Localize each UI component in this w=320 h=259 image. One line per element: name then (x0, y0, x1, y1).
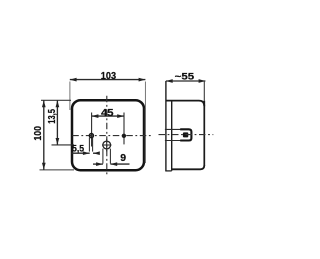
dim 103 arrow right (139, 78, 146, 82)
centre hole (103, 141, 111, 149)
dim 45 extension line left (91, 113, 93, 147)
side view centreline (159, 134, 214, 136)
screw boss thin lines (165, 128, 182, 130)
mounting hole right (122, 134, 126, 138)
side view right edge upper extension (203, 81, 205, 101)
front box right edge thick (144, 108, 146, 163)
dim 13,5 arrow up (56, 100, 60, 107)
dim 9 extension lines (102, 149, 104, 164)
vertical centreline (106, 96, 108, 175)
dim 100 bottom extension line (40, 169, 75, 171)
dim 9 line right + arrow (110, 163, 129, 165)
screw nut (183, 132, 188, 137)
screw boss thick cap (180, 129, 191, 140)
horizontal centreline (mounting holes) (72, 135, 151, 137)
dim 100 arrow down (42, 163, 46, 170)
dim 13,5 bottom extension line (centre hole level) (52, 144, 75, 146)
centre hole cross horizontal (102, 144, 112, 146)
svg-text:~55: ~55 (175, 70, 194, 81)
front view box (72, 100, 144, 170)
mounting hole left (89, 134, 93, 138)
svg-text:100: 100 (33, 126, 44, 141)
svg-text:45: 45 (101, 108, 114, 119)
dim 45 arrow right (117, 114, 124, 118)
side view: dim ~55 line left + arrow (166, 80, 206, 82)
dim 5,5 extension lines (88, 138, 90, 152)
svg-text:103: 103 (101, 71, 117, 82)
dim 45 arrow left (92, 114, 99, 118)
dim 5,5 line left + arrow (72, 152, 90, 154)
side view plate bottom (165, 170, 171, 172)
svg-text:9: 9 (120, 153, 126, 164)
dim 103 line (70, 79, 146, 81)
dim 13,5 line (56, 100, 58, 144)
side view right edge (203, 101, 205, 166)
svg-text:5,5: 5,5 (72, 144, 85, 155)
dim 100 arrow up (42, 100, 46, 107)
dim 103 arrow left (70, 78, 77, 82)
dim 45 extension line right (123, 113, 125, 145)
svg-text:13,5: 13,5 (47, 109, 58, 124)
side view bottom edge (172, 165, 205, 169)
dim 103 extension line right (144, 82, 146, 113)
dim 13,5 arrow down (56, 138, 60, 145)
dim 100 top extension line (41, 99, 71, 101)
dim 100 line (43, 100, 45, 169)
dim 103 extension line left (69, 82, 71, 111)
side view: dim ~55 arrow right (199, 79, 206, 83)
centre hole cross vertical (106, 139, 108, 152)
dim 45 line (92, 115, 124, 117)
side view plate inner edge (171, 101, 173, 171)
dim 5,5 line right + arrow (93, 152, 99, 154)
dim 9 line left + arrow (93, 163, 103, 165)
side view left edge / extension (165, 81, 167, 171)
side view top edge (166, 101, 204, 107)
